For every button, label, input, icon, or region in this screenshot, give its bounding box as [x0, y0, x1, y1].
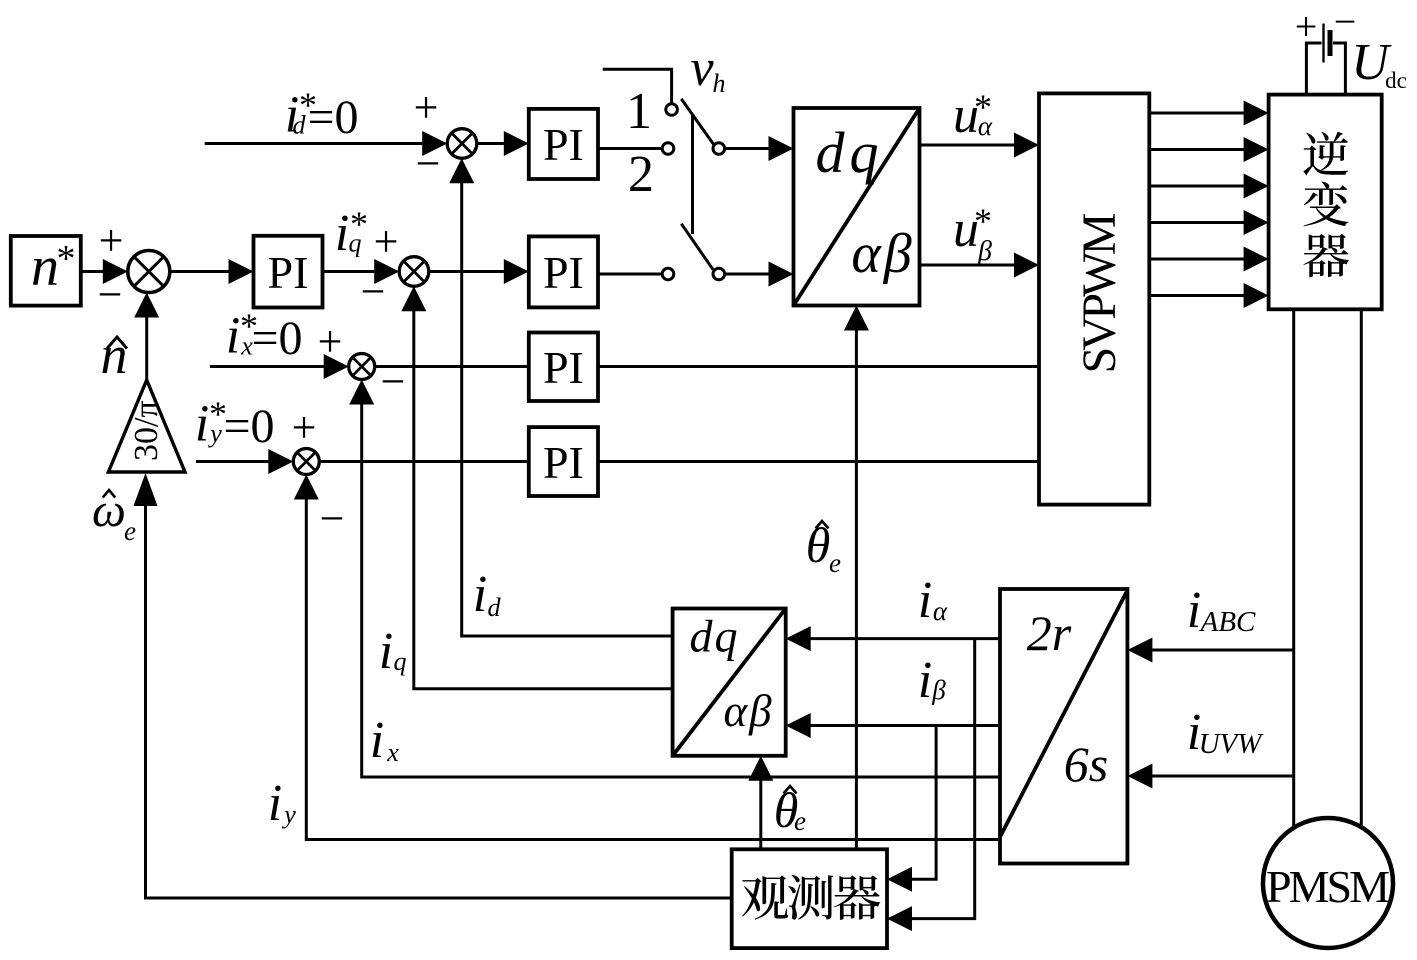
label i_alpha: [918, 572, 948, 629]
svg-text:−: −: [320, 494, 345, 543]
svg-text:x: x: [386, 738, 399, 767]
label i_q: [379, 623, 407, 680]
svg-text:*: *: [974, 201, 992, 241]
minus sign J3: [381, 357, 406, 406]
block 30/pi gain triangle: [108, 380, 185, 472]
wire i_y feedback: [294, 475, 1000, 840]
wire PI2 to switch contact: [598, 273, 662, 276]
switch contact 3 circle (row2): [662, 268, 674, 280]
svg-text:−: −: [361, 267, 386, 316]
wire pole2 to dq block: [725, 262, 794, 287]
svg-text:1: 1: [626, 83, 652, 140]
wire n* to J5: [81, 259, 128, 284]
block observer (guan ce qi): [732, 849, 887, 948]
svg-text:i: i: [918, 652, 932, 709]
block inverter (ni bian qi): [1269, 95, 1382, 310]
minus sign battery: [1334, 0, 1357, 44]
label U_dc: [1351, 34, 1407, 93]
label theta_e (lower): [774, 782, 806, 838]
svg-text:dq: dq: [816, 120, 884, 185]
label i_UVW: [1187, 704, 1264, 761]
wire i*x reference: [210, 354, 349, 379]
svg-text:d: d: [488, 593, 502, 622]
svg-text:PI: PI: [543, 119, 584, 170]
label vh: [690, 40, 725, 98]
battery short plate: [1328, 30, 1333, 56]
wire i*y reference: [196, 449, 293, 474]
block dq-to-alphabeta (voltage): [794, 108, 920, 306]
label u*_beta: [953, 201, 992, 267]
wire u*beta to SVPWM: [920, 253, 1040, 278]
svg-text:dc: dc: [1385, 68, 1407, 93]
label i*_d=0: [285, 85, 359, 144]
wire i_beta tap to observer: [887, 726, 936, 892]
svg-text:β: β: [977, 236, 992, 267]
wire speed PI to J2: [323, 259, 400, 284]
plus sign J5: [99, 216, 124, 265]
block 2r-6s transform: [1000, 589, 1127, 864]
label theta_e (upper): [806, 517, 841, 578]
svg-text:q: q: [394, 647, 407, 676]
wire i*d reference: [205, 131, 448, 156]
wire J2 to PI2: [429, 259, 529, 284]
block PI3: [529, 333, 598, 402]
switch blade 2: [681, 224, 713, 270]
block SVPWM: [1039, 93, 1149, 504]
wire J4 to PI4: [319, 460, 529, 463]
summing junction J4 (iy): [293, 449, 319, 475]
wire J1 to PI1: [477, 131, 529, 156]
battery long plate: [1322, 24, 1324, 63]
wire u*alpha to SVPWM: [920, 133, 1040, 158]
svg-text:i: i: [268, 775, 282, 832]
minus sign J5: [98, 270, 123, 319]
wire J5 to speed PI: [170, 259, 254, 284]
svg-text:e: e: [794, 806, 806, 836]
svg-text:−: −: [98, 270, 123, 319]
svg-text:+: +: [99, 216, 124, 265]
wire vh stub to contact 1: [603, 69, 672, 103]
minus sign J2: [361, 267, 386, 316]
wire PI1 to switch contact 2: [598, 147, 662, 150]
wire n_hat 30pi to J5: [134, 293, 159, 381]
svg-text:i: i: [473, 566, 487, 623]
svg-text:y: y: [207, 419, 222, 448]
wire i_UVW to 2r6s: [1127, 764, 1293, 789]
wire J3 to PI3: [375, 365, 529, 368]
wire i_ABC to 2r6s: [1127, 638, 1293, 663]
label u*_alpha: [953, 87, 993, 144]
switch contact 1 circle: [666, 104, 678, 116]
wire i_alpha 2r6s to dq: [786, 626, 1000, 651]
summing junction J3 (ix): [349, 354, 375, 380]
wire theta_e to top dq block: [844, 306, 869, 850]
svg-text:n: n: [31, 236, 59, 298]
wire inverter to PMSM phase b: [1360, 309, 1363, 826]
label omega_e: [92, 484, 136, 546]
block speed PI: [254, 236, 323, 308]
svg-text:SVPWM: SVPWM: [1073, 213, 1126, 374]
svg-text:α: α: [933, 596, 948, 626]
label i_x: [370, 712, 399, 769]
svg-text:n: n: [101, 325, 128, 385]
summing junction J1 (id): [447, 129, 477, 159]
svg-text:i: i: [1187, 582, 1201, 639]
switch gang link: [691, 114, 694, 234]
svg-text:=0: =0: [251, 312, 302, 365]
label 1: [626, 83, 652, 140]
svg-text:+: +: [414, 83, 439, 132]
block PI1: [529, 109, 598, 179]
plus sign J4: [292, 403, 317, 452]
summing junction J2 (iq): [399, 257, 429, 287]
wire i_x feedback: [349, 380, 1000, 778]
svg-text:+: +: [292, 403, 317, 452]
svg-text:i: i: [370, 712, 384, 769]
minus sign J4: [320, 494, 345, 543]
svg-text:ABC: ABC: [1199, 606, 1256, 638]
wire inverter to PMSM phase a: [1292, 309, 1295, 828]
svg-text:PMSM: PMSM: [1266, 861, 1390, 912]
plus sign J1: [414, 83, 439, 132]
svg-text:dq: dq: [690, 611, 740, 662]
switch contact 2 circle: [662, 143, 674, 155]
wire DC source left: [1306, 43, 1321, 95]
svg-text:h: h: [713, 69, 726, 98]
wire PI4 to SVPWM: [598, 460, 1039, 463]
svg-text:β: β: [931, 675, 946, 705]
summing junction J5 (speed): [128, 251, 170, 293]
block PI4: [529, 427, 598, 496]
block PI2: [529, 236, 598, 307]
svg-text:−: −: [416, 139, 441, 188]
svg-text:q: q: [349, 229, 362, 258]
wire i_alpha tap to observer: [887, 639, 975, 932]
label 2: [628, 146, 654, 203]
wire DC source right: [1333, 43, 1345, 95]
svg-text:e: e: [829, 548, 841, 578]
minus sign J1: [416, 139, 441, 188]
label i*_q: [335, 204, 368, 262]
label i_d: [473, 566, 502, 623]
svg-text:i: i: [226, 308, 240, 365]
svg-text:+: +: [374, 217, 399, 266]
svg-text:i: i: [195, 396, 209, 453]
wire i_q feedback: [401, 286, 672, 689]
svg-text:αβ: αβ: [851, 223, 914, 285]
wires SVPWM to inverter (6 PWM signals): [1149, 101, 1268, 309]
svg-text:PI: PI: [268, 247, 309, 298]
block n* reference: [11, 236, 81, 306]
switch blade 1: [681, 99, 714, 146]
svg-text:2r: 2r: [1027, 605, 1072, 661]
plus sign J2: [374, 217, 399, 266]
svg-text:i: i: [335, 205, 349, 262]
wire PI3 to SVPWM: [598, 365, 1039, 368]
svg-text:UVW: UVW: [1199, 728, 1265, 760]
svg-text:α: α: [978, 111, 993, 141]
plus sign battery: [1295, 4, 1318, 49]
plus sign J3: [318, 317, 343, 366]
switch pole 1 circle: [713, 143, 725, 155]
svg-text:+: +: [1295, 4, 1318, 49]
svg-text:PI: PI: [543, 342, 584, 393]
svg-text:v: v: [690, 40, 714, 97]
svg-text:=0: =0: [307, 91, 358, 144]
motor PMSM circle: [1263, 818, 1393, 948]
label i_y: [268, 775, 296, 832]
wire i_d feedback: [449, 158, 672, 636]
svg-text:d: d: [293, 111, 307, 140]
label i_beta: [918, 652, 947, 709]
svg-text:PI: PI: [543, 437, 584, 488]
wire omega_e observer to 30pi: [134, 473, 732, 898]
switch pole 2 circle: [713, 268, 725, 280]
wire i_beta 2r6s to dq: [786, 713, 1000, 738]
wire pole1 to dq block: [725, 136, 794, 161]
wire theta_e to bottom dq block: [748, 756, 773, 850]
svg-text:=0: =0: [223, 400, 274, 453]
svg-text:i: i: [379, 623, 393, 680]
svg-text:*: *: [57, 238, 76, 280]
label n_hat: [101, 325, 128, 385]
svg-text:2: 2: [628, 146, 654, 203]
svg-text:y: y: [281, 800, 296, 829]
svg-text:αβ: αβ: [723, 686, 773, 736]
svg-text:i: i: [918, 572, 932, 629]
svg-text:30/π: 30/π: [128, 400, 165, 461]
svg-text:e: e: [124, 516, 136, 546]
svg-text:PI: PI: [543, 247, 584, 298]
block alphabeta-to-dq (current): [673, 609, 786, 756]
label i*_y=0: [195, 394, 275, 453]
label i_ABC: [1187, 582, 1256, 639]
svg-text:−: −: [381, 357, 406, 406]
svg-text:6s: 6s: [1064, 736, 1108, 792]
label i*_x=0: [226, 306, 303, 365]
